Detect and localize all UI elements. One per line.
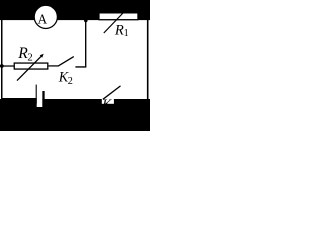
switch K label white notch in bottom band <box>102 99 114 104</box>
white background <box>0 0 150 131</box>
resistor R1 box white fill <box>100 14 138 20</box>
svg-text:2: 2 <box>68 76 73 87</box>
wire node to R2 <box>3 65 15 66</box>
switch K2 blade <box>58 57 74 67</box>
svg-text:2: 2 <box>27 52 32 63</box>
resistor R2 box <box>14 63 48 69</box>
battery gap white notch in bottom band <box>37 99 43 107</box>
svg-text:R: R <box>114 22 124 38</box>
wire left vertical <box>1 19 3 99</box>
svg-text:A: A <box>38 12 48 27</box>
node junction dot left <box>0 64 4 68</box>
wire right vertical <box>147 20 149 100</box>
bottom black band <box>0 99 150 131</box>
battery long plate <box>36 85 37 104</box>
battery short thick plate <box>42 91 44 100</box>
svg-text:1: 1 <box>124 28 129 39</box>
resistor R1 box bottom edge <box>98 19 138 20</box>
wire R2 to switch K2 <box>49 65 59 66</box>
wire middle vertical with corner to switch K2 <box>75 19 85 67</box>
resistor R1 slider arrow <box>104 13 123 33</box>
switch K blade <box>103 86 121 99</box>
resistor R2 arrowhead <box>40 54 44 58</box>
resistor R2 slider arrow <box>17 55 42 80</box>
wire bottom-left segment <box>1 98 37 99</box>
ammeter U1 circle <box>34 5 57 28</box>
svg-text:K: K <box>101 97 112 112</box>
node junction dot top <box>84 19 88 23</box>
top black band <box>0 0 150 20</box>
